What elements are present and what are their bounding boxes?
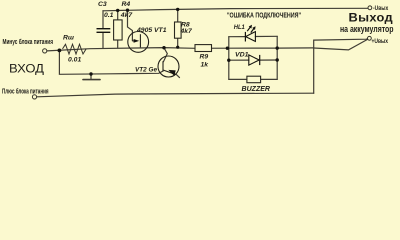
svg-text:на аккумулятор: на аккумулятор	[340, 23, 394, 34]
svg-text:Rш: Rш	[63, 35, 74, 42]
svg-text:VD1: VD1	[235, 52, 249, 59]
svg-text:R4: R4	[122, 1, 131, 8]
svg-text:-Uвых: -Uвых	[373, 6, 389, 12]
svg-text:VT2 Ge: VT2 Ge	[135, 66, 157, 73]
svg-text:HL1: HL1	[234, 24, 245, 31]
svg-text:1k: 1k	[201, 62, 210, 69]
svg-text:4905 VT1: 4905 VT1	[136, 27, 167, 34]
svg-text:4k7: 4k7	[180, 28, 194, 35]
svg-text:C3: C3	[98, 1, 107, 8]
svg-text:+Uвых: +Uвых	[372, 39, 389, 45]
svg-text:Минус блока питания: Минус блока питания	[3, 37, 54, 46]
svg-text:0.01: 0.01	[68, 57, 81, 64]
svg-text:4k7: 4k7	[120, 12, 134, 19]
svg-text:0.1: 0.1	[104, 12, 114, 19]
svg-text:Плюс блока питания: Плюс блока питания	[2, 87, 49, 96]
svg-text:R9: R9	[200, 53, 209, 60]
svg-text:"ОШИБКА ПОДКЛЮЧЕНИЯ": "ОШИБКА ПОДКЛЮЧЕНИЯ"	[227, 10, 301, 19]
svg-text:ВХОД: ВХОД	[9, 62, 44, 76]
svg-text:BUZZER: BUZZER	[242, 84, 271, 93]
